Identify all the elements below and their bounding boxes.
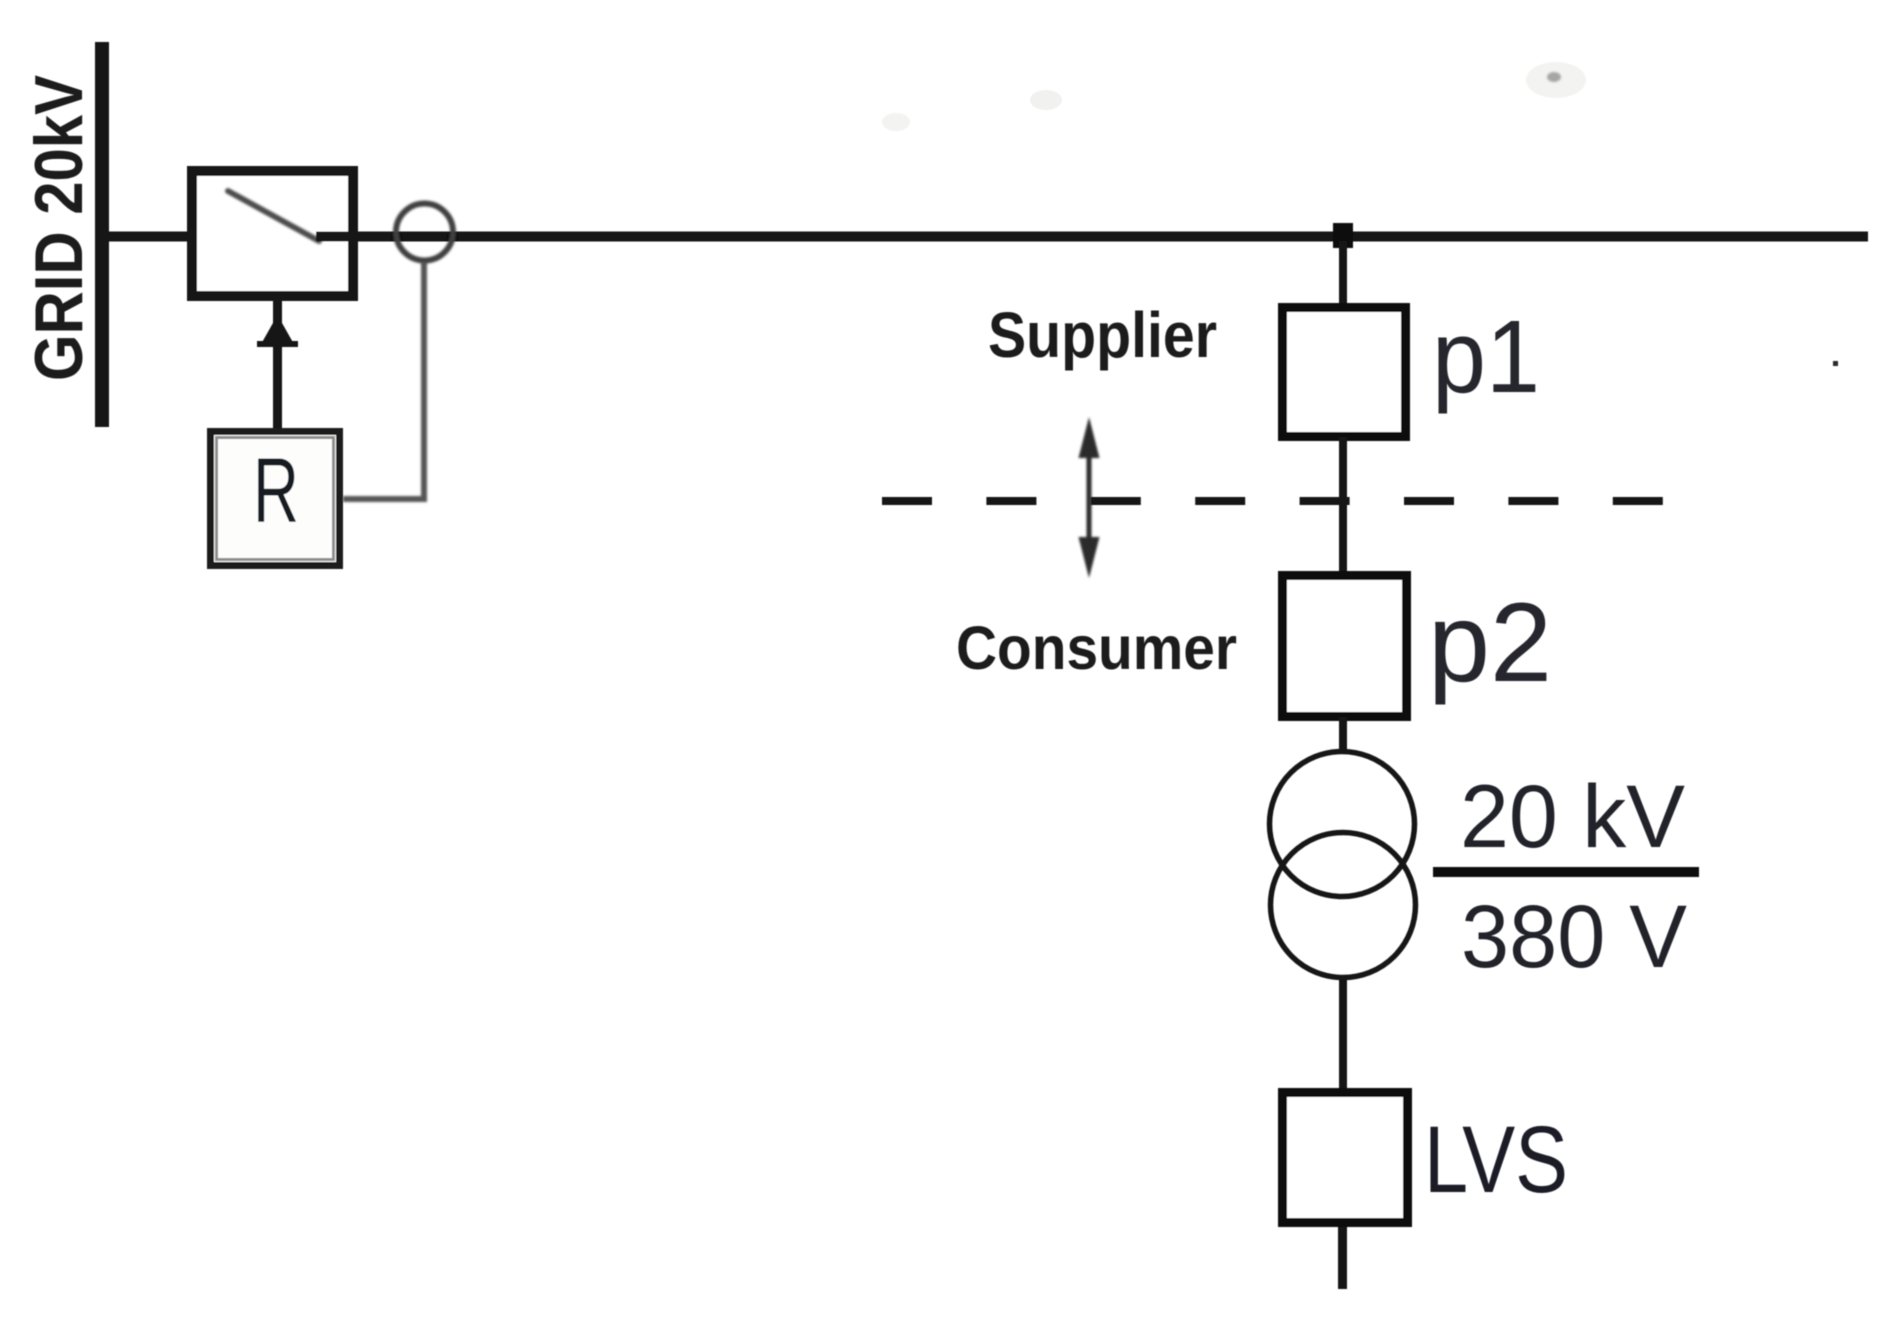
wire main feeder left segment [109, 232, 232, 242]
relay R box inner grey outline [217, 438, 334, 560]
svg-text:380 V: 380 V [1461, 886, 1687, 986]
LVS box [1283, 1093, 1408, 1223]
faint scan smudge [1526, 62, 1586, 98]
breaker right contact stub [316, 232, 357, 242]
svg-text:p2: p2 [1428, 580, 1552, 705]
wire stub below LVS [1338, 1227, 1347, 1289]
wire main feeder right segment [316, 232, 1868, 242]
faint scan smudge 3 [882, 113, 910, 131]
boundary dashed line [882, 497, 1664, 505]
sensor circle on feeder [396, 204, 453, 261]
wire junction down to p1 [1339, 241, 1347, 307]
node junction on feeder [1333, 223, 1353, 248]
control arrow from relay R to breaker [257, 300, 298, 428]
svg-text:p1: p1 [1432, 299, 1540, 414]
relay R box [211, 432, 340, 566]
speck artifact [1833, 361, 1838, 366]
svg-text:GRID 20kV: GRID 20kV [21, 75, 97, 381]
svg-text:LVS: LVS [1424, 1107, 1568, 1213]
breaker blade (open switch) [228, 191, 319, 241]
svg-text:Supplier: Supplier [988, 299, 1217, 371]
wire p1 to p2 [1339, 437, 1347, 575]
wire p2 to transformer [1339, 717, 1347, 753]
scan smudge core [1547, 72, 1561, 82]
svg-text:R: R [253, 440, 299, 542]
wire relay R to sensor circle [343, 262, 424, 499]
svg-text:Consumer: Consumer [956, 614, 1237, 683]
transformer T1 upper winding [1270, 752, 1415, 897]
faint scan smudge 2 [1030, 90, 1062, 110]
circuit breaker box [192, 171, 353, 296]
svg-text:20 kV: 20 kV [1460, 766, 1685, 866]
transformer T1 lower winding [1271, 833, 1416, 978]
bus bar GRID 20kV [95, 42, 109, 427]
exchange double arrow across boundary [1079, 417, 1100, 578]
meter p2 box [1283, 576, 1407, 717]
wire transformer to LVS [1339, 976, 1347, 1089]
ratio fraction bar [1433, 867, 1699, 877]
meter p1 box [1283, 308, 1406, 437]
